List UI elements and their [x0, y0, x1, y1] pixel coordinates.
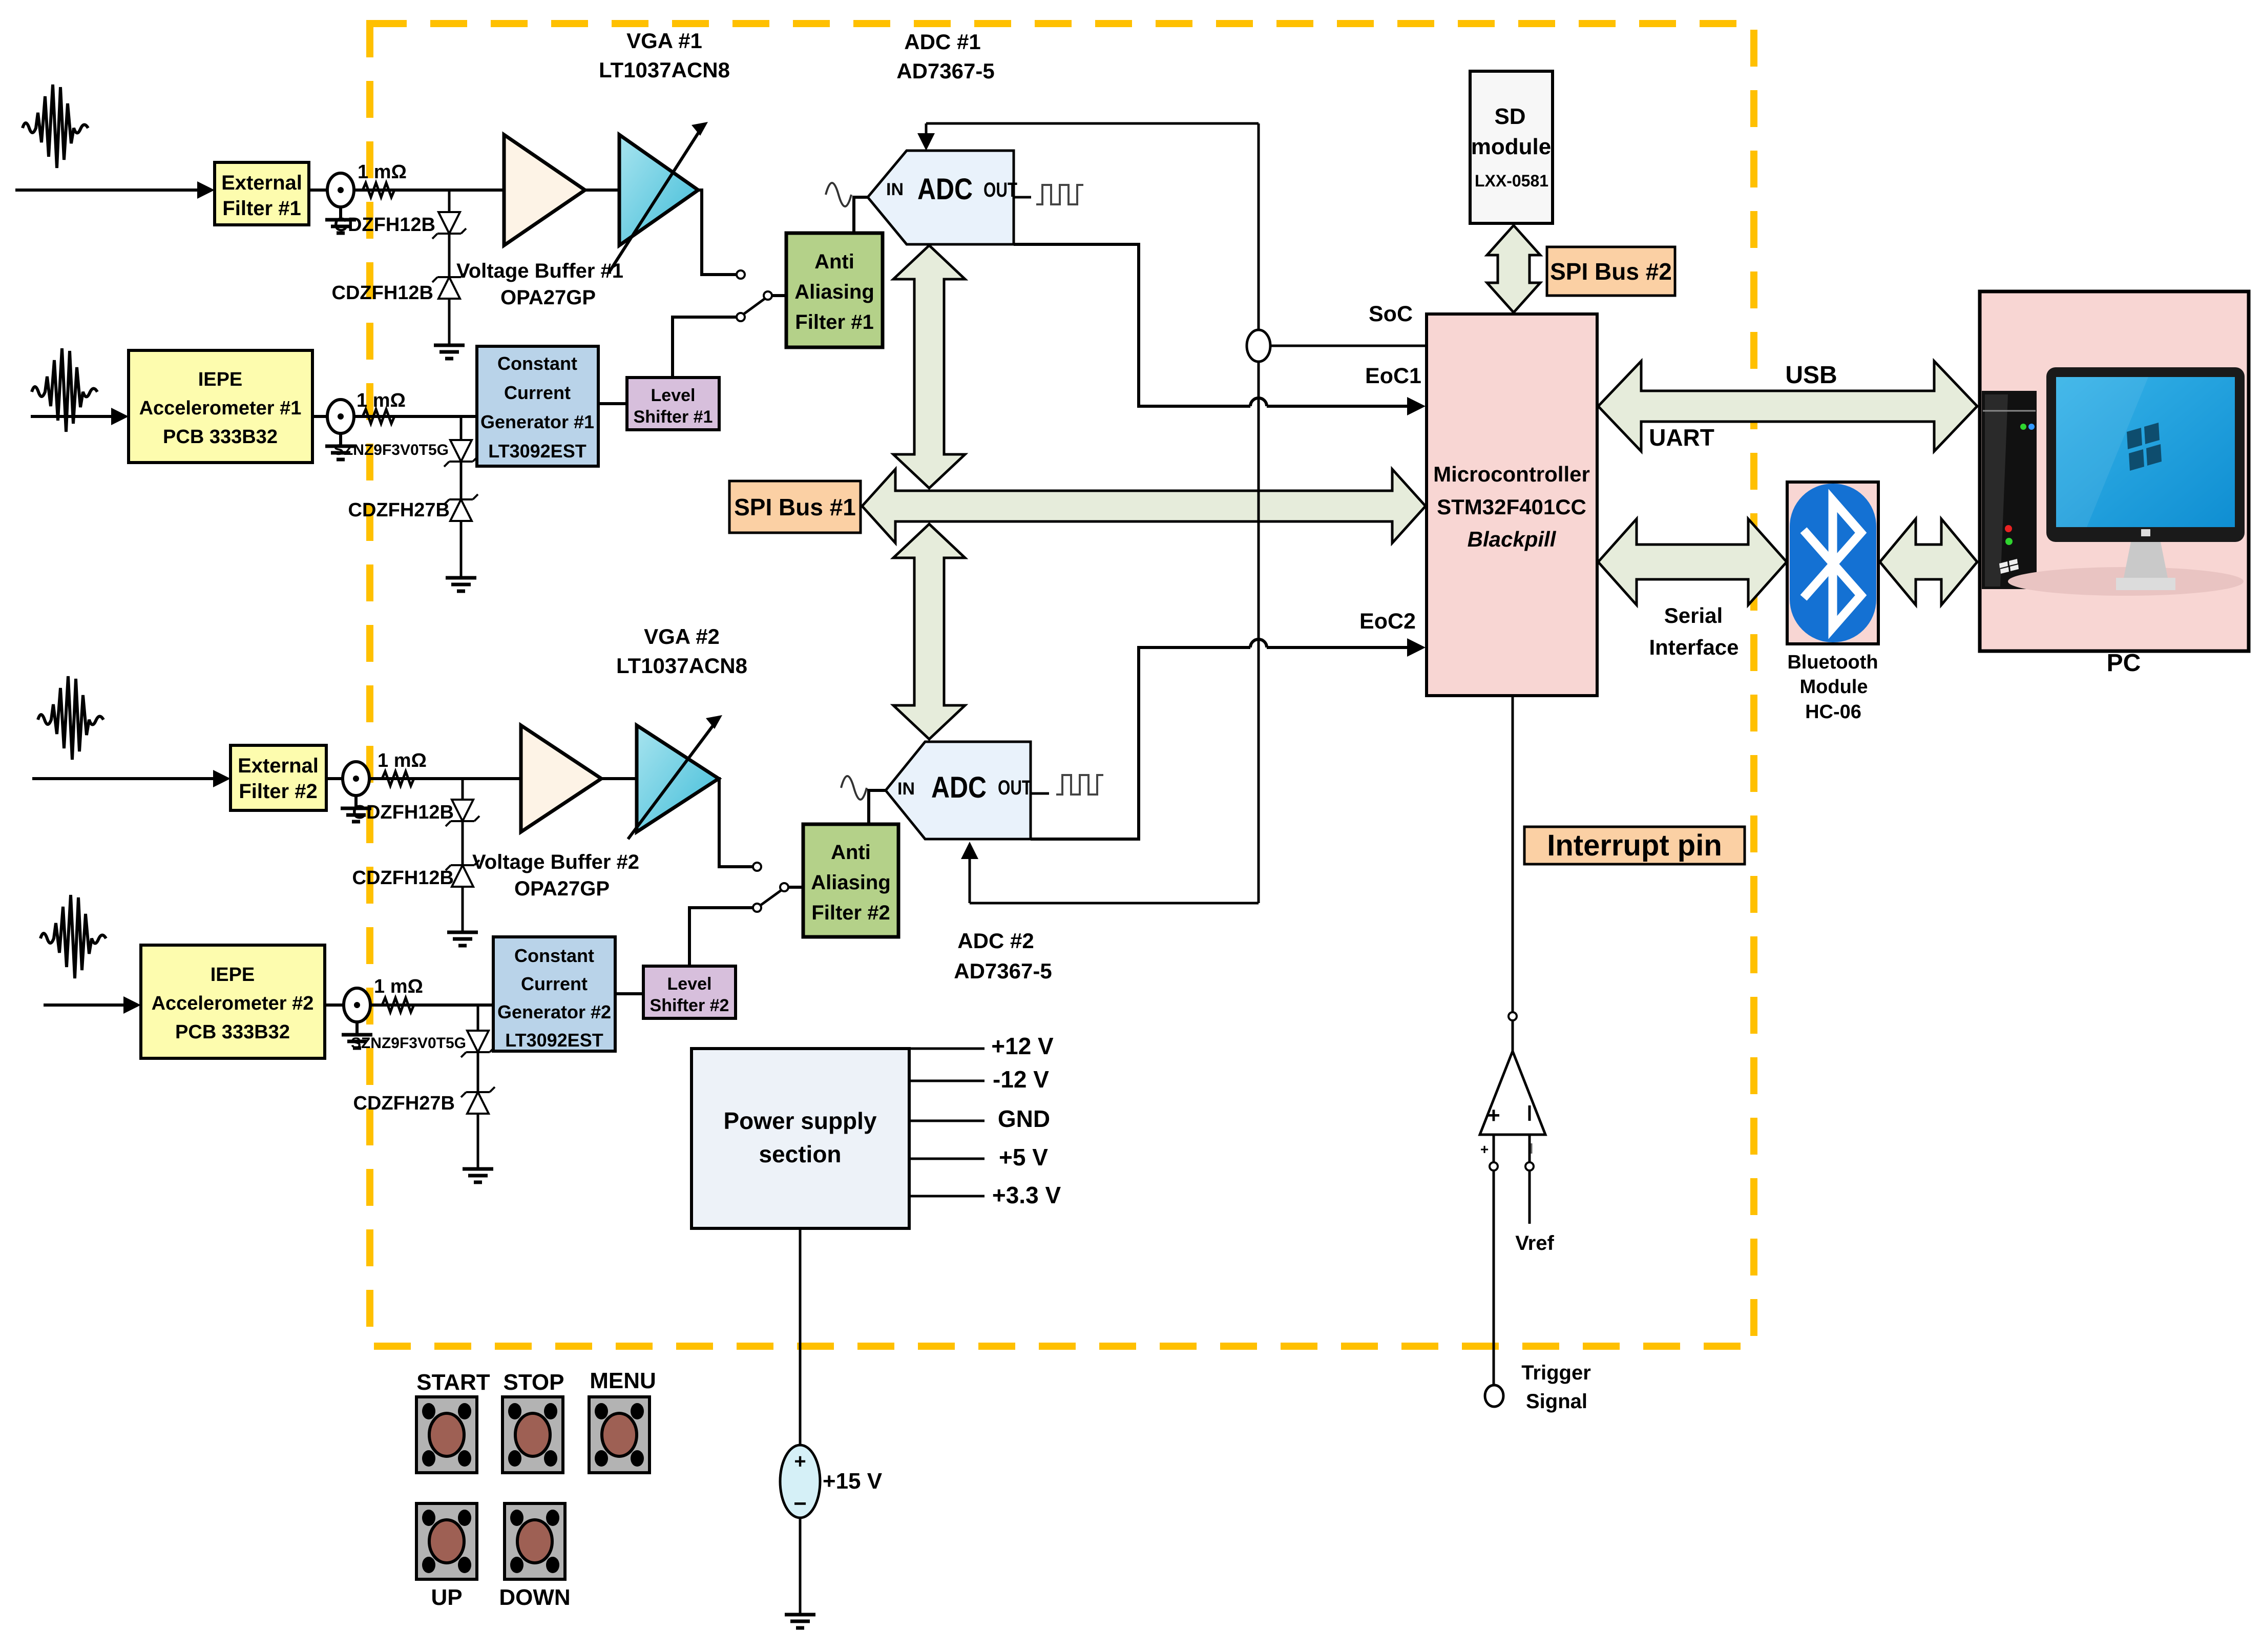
double arrow Bluetooth to PC — [1880, 519, 1977, 605]
svg-text:VGA #1: VGA #1 — [626, 29, 702, 53]
svg-text:1 mΩ: 1 mΩ — [357, 390, 406, 411]
SoC wire to ADC2 — [961, 362, 1259, 903]
ADC2 OUT stub — [1031, 792, 1049, 795]
wavelet signal icon 2 — [32, 348, 97, 432]
wire VGA1 output to switch — [698, 190, 736, 275]
interrupt wire MCU to comparator — [1512, 696, 1514, 1012]
wire +15V to ground — [799, 1518, 802, 1614]
svg-text:Generator #1: Generator #1 — [480, 411, 594, 432]
svg-text:Aliasing: Aliasing — [811, 871, 891, 894]
trigger wire — [1493, 1170, 1495, 1385]
svg-text:Filter #1: Filter #1 — [222, 197, 301, 220]
svg-text:Current: Current — [504, 382, 571, 403]
zener diode CDZFH12B (lower, row 1) — [332, 272, 466, 304]
svg-text:Microcontroller: Microcontroller — [1433, 462, 1590, 486]
Vref wire — [1528, 1170, 1531, 1224]
svg-text:OPA27GP: OPA27GP — [514, 877, 610, 900]
zener diode CDZFH27B (row 2) — [348, 494, 478, 521]
Microcontroller U1 STM32F401CC box — [1427, 314, 1597, 696]
wire CCG2 to Level Shifter 2 — [615, 992, 643, 995]
svg-text:−: − — [793, 1491, 807, 1516]
BNC connector 4 — [342, 988, 372, 1048]
comparator input stubs — [1480, 1135, 1532, 1162]
svg-text:LT3092EST: LT3092EST — [505, 1030, 603, 1051]
Serial Interface double arrow MCU to Bluetooth — [1598, 519, 1787, 605]
svg-text:Blackpill: Blackpill — [1468, 527, 1557, 551]
VGA #1 LT1037ACN8 amplifier — [599, 29, 730, 273]
svg-text:SPI Bus #1: SPI Bus #1 — [734, 494, 856, 520]
+15 V source V1 — [780, 1445, 883, 1518]
svg-text:PCB 333B32: PCB 333B32 — [163, 426, 278, 448]
switch 2 contact a — [753, 863, 761, 871]
svg-text:+: + — [1480, 1141, 1489, 1157]
svg-text:Shifter #2: Shifter #2 — [650, 996, 729, 1015]
resistor 1 mΩ (row 3) — [378, 750, 427, 786]
svg-text:EoC2: EoC2 — [1359, 609, 1416, 634]
resistor 1 mΩ (row 2) — [357, 390, 406, 424]
svg-text:Voltage Buffer #1: Voltage Buffer #1 — [456, 260, 623, 282]
switch 2 contact b — [753, 904, 761, 912]
wavelet signal icon 1 — [23, 85, 88, 168]
BNC connector 3 — [341, 762, 371, 822]
svg-text:1 mΩ: 1 mΩ — [358, 161, 407, 183]
svg-text:Filter #1: Filter #1 — [795, 311, 873, 333]
wire External Filter #2 to buffer 2 — [326, 777, 521, 780]
SPI Bus #1 label box — [729, 481, 861, 533]
ground (power supply) — [785, 1615, 815, 1628]
comparator input contact circles — [1490, 1162, 1534, 1170]
resistor 1 mΩ (row 4) — [374, 976, 423, 1012]
svg-text:section: section — [759, 1141, 841, 1167]
svg-text:Accelerometer #2: Accelerometer #2 — [152, 993, 314, 1014]
SD module box — [1470, 71, 1553, 223]
trigger signal terminal circle — [1485, 1385, 1503, 1407]
wire diode to ground row4 — [477, 1114, 479, 1168]
START button — [416, 1370, 490, 1473]
wire AAF2 to ADC2 input — [869, 790, 886, 824]
svg-text:LT3092EST: LT3092EST — [488, 441, 586, 462]
wire between diodes row3 — [462, 821, 464, 865]
svg-text:PCB 333B32: PCB 333B32 — [175, 1021, 290, 1043]
ground (row1 diode chain) — [434, 345, 465, 359]
wire AAF1 to ADC1 input — [854, 197, 868, 233]
node junction ellipse on SoC net — [1247, 330, 1270, 362]
svg-text:MENU: MENU — [590, 1368, 656, 1393]
SPI Bus #1 vertical double arrow to ADC1 — [893, 245, 965, 488]
svg-text:Level: Level — [651, 386, 696, 405]
op-amp Voltage Buffer #1 OPA27GP — [456, 135, 623, 309]
Serial Interface label — [1649, 603, 1739, 659]
svg-text:OUT: OUT — [998, 777, 1032, 799]
svg-text:ADC #1: ADC #1 — [904, 30, 980, 54]
ADC #2 title — [954, 929, 1052, 983]
wire diode to ground row2 — [460, 521, 463, 577]
svg-text:IEPE: IEPE — [198, 369, 243, 390]
input wire row 4 — [44, 996, 141, 1014]
VGA #2 LT1037ACN8 amplifier — [616, 624, 747, 839]
Bluetooth Module HC-06 — [1787, 482, 1878, 723]
svg-text:Anti: Anti — [831, 841, 871, 864]
svg-text:LT1037ACN8: LT1037ACN8 — [599, 58, 730, 82]
square wave symbol ADC2 out — [1056, 775, 1103, 794]
resistor 1 mΩ (row 1) — [358, 161, 407, 197]
svg-text:STOP: STOP — [503, 1370, 564, 1395]
ground (row2 diode chain) — [446, 578, 476, 591]
SPI Bus #2 vertical double arrow — [1487, 225, 1540, 312]
svg-text:CDZFH27B: CDZFH27B — [353, 1093, 455, 1114]
svg-text:Constant: Constant — [497, 353, 577, 374]
ADC #2 pentagon — [886, 742, 1032, 839]
sine symbol at ADC1 input — [826, 183, 851, 206]
wire diode to ground row3 — [462, 887, 464, 931]
zener diode SZNZ9F3V0T5G (row 2) — [333, 440, 478, 467]
ADC #1 title — [896, 30, 994, 83]
svg-text:Power supply: Power supply — [723, 1107, 876, 1134]
IEPE Accelerometer #1 box — [129, 350, 312, 463]
BNC connector 1 — [325, 173, 356, 233]
input wire row 1 — [15, 181, 215, 199]
svg-text:LT1037ACN8: LT1037ACN8 — [616, 654, 747, 678]
comparator op-amp — [1480, 1020, 1545, 1135]
Interrupt pin label box — [1524, 827, 1745, 864]
PC monitor — [2008, 367, 2245, 596]
PC box — [1980, 291, 2249, 677]
svg-text:ADC #2: ADC #2 — [957, 929, 1034, 953]
SPI Bus #1 vertical double arrow to ADC2 — [893, 524, 965, 739]
wire between diodes row2 — [460, 462, 463, 499]
svg-text:Aliasing: Aliasing — [794, 281, 874, 303]
svg-text:UP: UP — [431, 1585, 462, 1610]
svg-text:Voltage Buffer #2: Voltage Buffer #2 — [472, 851, 639, 873]
svg-text:Filter #2: Filter #2 — [239, 780, 317, 803]
switch 1 contact b — [737, 313, 745, 321]
svg-text:GND: GND — [998, 1105, 1050, 1132]
Anti Aliasing Filter #2 box — [803, 824, 898, 937]
SPI Bus #2 label box — [1547, 247, 1675, 296]
External Filter #2 box — [231, 745, 326, 810]
ground (row4 diode chain) — [463, 1169, 493, 1182]
svg-text:Serial: Serial — [1664, 603, 1723, 628]
Level Shifter #1 box — [627, 378, 719, 430]
svg-text:Interface: Interface — [1649, 635, 1739, 659]
ground (row3 diode chain) — [447, 932, 478, 946]
svg-text:Signal: Signal — [1526, 1390, 1587, 1413]
svg-text:External: External — [238, 755, 319, 777]
ADC1 OUT stub — [1014, 196, 1031, 199]
wire between diodes row4 — [477, 1052, 479, 1092]
svg-text:AD7367-5: AD7367-5 — [954, 959, 1052, 983]
svg-text:Vref: Vref — [1515, 1232, 1554, 1254]
svg-text:Constant: Constant — [514, 945, 594, 966]
svg-text:+5 V: +5 V — [999, 1144, 1048, 1170]
svg-text:USB: USB — [1785, 362, 1837, 389]
-12 V output stub — [909, 1066, 1049, 1093]
switch 2 common + lever — [761, 883, 803, 905]
svg-text:ADC: ADC — [917, 173, 973, 206]
svg-text:+15 V: +15 V — [823, 1469, 883, 1494]
wire power supply to +15V source — [799, 1228, 802, 1446]
svg-text:CDZFH12B: CDZFH12B — [352, 802, 454, 823]
svg-text:UART: UART — [1649, 424, 1714, 451]
GND output stub — [909, 1105, 1050, 1132]
node junction row4 diode chain — [477, 1005, 479, 1031]
node junction row3 diode chain — [462, 779, 464, 800]
svg-text:OPA27GP: OPA27GP — [500, 286, 596, 309]
svg-text:CDZFH27B: CDZFH27B — [348, 499, 450, 521]
wire VGA2 output to switch 2 — [719, 779, 753, 867]
wire IEPE1 to CCG1 — [312, 415, 477, 418]
svg-text:Interrupt pin: Interrupt pin — [1547, 829, 1722, 862]
sine symbol at ADC2 input — [841, 776, 867, 800]
External Filter #1 box — [215, 162, 309, 225]
wire buffer1 to VGA1 — [585, 189, 619, 192]
PC tower — [1982, 391, 2037, 589]
svg-text:CDZFH12B: CDZFH12B — [332, 282, 433, 304]
Constant Current Generator #2 box — [493, 937, 615, 1051]
svg-text:1 mΩ: 1 mΩ — [378, 750, 427, 771]
zener diode CDZFH12B (lower, row 3) — [352, 860, 479, 889]
svg-text:EoC1: EoC1 — [1365, 364, 1421, 388]
ADC #1 pentagon — [868, 151, 1017, 244]
EoC2 wire ADC2 to MCU — [1031, 638, 1426, 839]
+5 V output stub — [909, 1144, 1048, 1170]
svg-text:SPI Bus #2: SPI Bus #2 — [1550, 258, 1672, 285]
svg-text:+3.3 V: +3.3 V — [992, 1182, 1061, 1208]
BNC connector 2 — [325, 400, 356, 459]
svg-text:Bluetooth: Bluetooth — [1787, 652, 1878, 673]
wire CCG1 to Level Shifter 1 — [598, 402, 627, 405]
svg-text:DOWN: DOWN — [499, 1585, 570, 1610]
op-amp Voltage Buffer #2 OPA27GP — [472, 725, 639, 900]
zener diode CDZFH27B (row 4) — [353, 1087, 495, 1114]
input wire row 3 — [32, 770, 231, 787]
svg-text:CDZFH12B: CDZFH12B — [352, 867, 454, 889]
svg-text:START: START — [416, 1370, 490, 1395]
wire IEPE2 to CCG2 — [325, 1003, 493, 1007]
svg-text:SoC: SoC — [1369, 302, 1413, 326]
EoC1 wire ADC1 to MCU — [1014, 244, 1426, 415]
+3.3 V output stub — [909, 1182, 1061, 1208]
svg-text:-12 V: -12 V — [993, 1066, 1049, 1093]
zener diode SZNZ9F3V0T5G (row 4) — [351, 1031, 495, 1057]
svg-text:VGA #2: VGA #2 — [644, 624, 720, 649]
wire External Filter #1 to buffer — [309, 189, 504, 192]
svg-text:Filter #2: Filter #2 — [811, 902, 890, 924]
wavelet signal icon 4 — [40, 895, 106, 978]
wavelet signal icon 3 — [38, 676, 103, 760]
DOWN button — [499, 1503, 570, 1610]
svg-text:Generator #2: Generator #2 — [497, 1001, 611, 1022]
zener diode CDZFH12B (upper, row 1) — [334, 212, 466, 239]
svg-text:PC: PC — [2107, 650, 2141, 677]
dashed system boundary box — [370, 24, 1754, 1346]
svg-text:1 mΩ: 1 mΩ — [374, 976, 423, 997]
svg-text:Accelerometer #1: Accelerometer #1 — [139, 398, 302, 419]
svg-text:IN: IN — [886, 180, 904, 199]
square wave symbol ADC1 out — [1036, 185, 1083, 204]
wire buffer2 to VGA2 — [601, 777, 637, 780]
Trigger Signal label — [1521, 1362, 1591, 1413]
node junction row1 diode chain — [448, 190, 451, 212]
svg-text:Level: Level — [667, 974, 712, 994]
svg-text:SZNZ9F3V0T5G: SZNZ9F3V0T5G — [333, 442, 449, 458]
svg-text:Shifter #1: Shifter #1 — [634, 407, 713, 427]
svg-text:Anti: Anti — [814, 250, 854, 273]
Level Shifter #2 box — [643, 966, 736, 1018]
USB / UART double arrow MCU to PC — [1598, 361, 1977, 451]
Constant Current Generator #1 box — [477, 346, 598, 466]
IEPE Accelerometer #2 box — [141, 945, 325, 1058]
UP button — [416, 1503, 477, 1610]
switch 1 contact a — [737, 270, 745, 279]
svg-text:IEPE: IEPE — [211, 964, 255, 986]
switch 1 common + lever — [744, 291, 786, 314]
wire diode to ground row1 — [448, 299, 451, 344]
input wire row 2 — [31, 408, 129, 425]
svg-text:Module: Module — [1800, 676, 1868, 698]
svg-text:module: module — [1471, 134, 1551, 159]
Anti Aliasing Filter #1 box — [786, 233, 883, 347]
STOP button — [502, 1370, 564, 1473]
svg-text:LXX-0581: LXX-0581 — [1475, 172, 1548, 190]
svg-text:External: External — [221, 172, 302, 194]
svg-text:SD: SD — [1494, 104, 1525, 129]
node small circle above comparator — [1509, 1012, 1517, 1020]
svg-text:CDZFH12B: CDZFH12B — [334, 214, 435, 236]
svg-text:IN: IN — [897, 779, 915, 799]
SPI Bus #1 horizontal double arrow — [862, 469, 1426, 543]
svg-text:AD7367-5: AD7367-5 — [896, 59, 994, 83]
svg-text:+: + — [794, 1450, 806, 1473]
svg-text:HC-06: HC-06 — [1805, 701, 1861, 723]
svg-text:ADC: ADC — [931, 771, 987, 804]
node junction row2 diode chain — [460, 416, 463, 440]
svg-text:+: + — [1487, 1103, 1500, 1128]
wire level shifter 2 to switch 2 — [689, 908, 753, 966]
SoC wire MCU to ADC1 — [917, 123, 1427, 346]
svg-text:SZNZ9F3V0T5G: SZNZ9F3V0T5G — [351, 1035, 466, 1052]
zener diode CDZFH12B (upper, row 3) — [352, 800, 479, 826]
wire level shifter 1 to switch — [673, 317, 737, 378]
svg-text:+12 V: +12 V — [991, 1033, 1054, 1059]
svg-text:Current: Current — [521, 973, 588, 994]
svg-text:OUT: OUT — [983, 179, 1017, 201]
Power supply section box — [692, 1049, 909, 1228]
wire between diodes row1 — [448, 234, 451, 277]
svg-text:STM32F401CC: STM32F401CC — [1437, 495, 1586, 519]
+12 V output stub — [909, 1033, 1054, 1059]
svg-text:Trigger: Trigger — [1521, 1362, 1591, 1384]
MENU button — [589, 1368, 656, 1473]
